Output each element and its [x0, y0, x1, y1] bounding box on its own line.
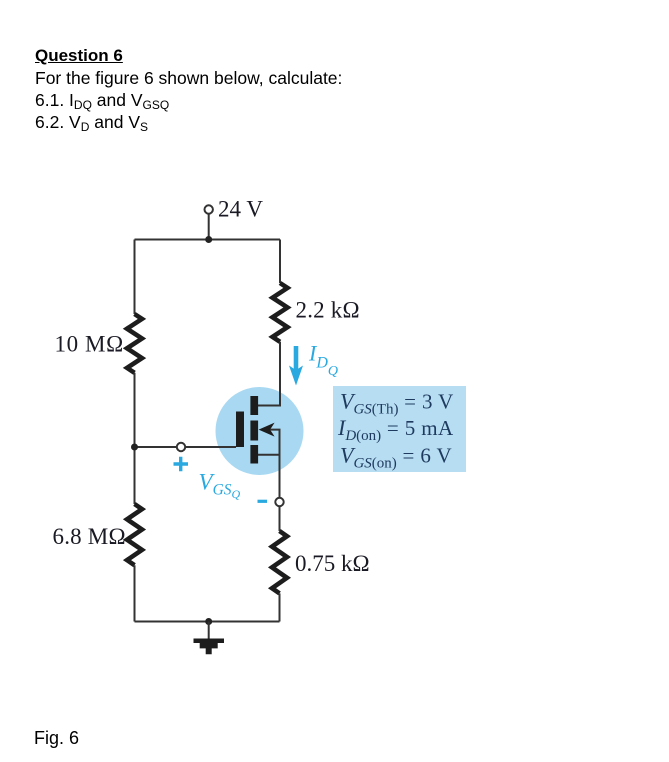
wire: supply stub	[208, 214, 210, 240]
drain contact bar	[250, 396, 258, 415]
svg-text:0.75 kΩ: 0.75 kΩ	[295, 551, 370, 576]
wire: left rail mid	[134, 373, 136, 504]
current arrow IDQ	[294, 346, 299, 370]
wire: right rail to drain	[257, 342, 280, 406]
svg-text:10 MΩ: 10 MΩ	[55, 332, 124, 357]
wire: bottom rail	[135, 621, 280, 623]
node: top junction dot	[205, 236, 212, 243]
wire: to RS	[279, 506, 281, 531]
node: source open terminal	[275, 498, 283, 506]
resistor R 10M	[127, 314, 142, 373]
resistor R 6.8M	[127, 504, 142, 565]
resistor R 0.75k	[272, 531, 287, 593]
body contact bar	[250, 421, 258, 441]
label: minus	[258, 500, 268, 503]
wire: body to source rail	[270, 430, 280, 502]
label: plus	[174, 457, 189, 471]
gate bar	[236, 412, 244, 448]
ground	[208, 622, 210, 639]
svg-text:2.2 kΩ: 2.2 kΩ	[296, 298, 360, 323]
svg-text:24 V: 24 V	[218, 197, 263, 222]
wire: top rail	[135, 239, 281, 241]
svg-text:6.8 MΩ: 6.8 MΩ	[53, 524, 126, 549]
node: ground junction dot	[205, 618, 212, 625]
wire: RS to bottom rail	[279, 593, 281, 621]
info box	[333, 386, 466, 472]
wire: left rail upper	[134, 240, 136, 315]
body arrow	[259, 423, 275, 437]
MOSFET highlight circle	[216, 387, 304, 475]
svg-text:VGSQ: VGSQ	[199, 470, 241, 502]
wire: right rail upper	[279, 240, 281, 284]
node: gate junction dot	[131, 444, 138, 451]
resistor R 2.2k	[273, 283, 288, 342]
wire: source terminal	[258, 454, 280, 456]
source contact bar	[250, 445, 258, 464]
node: gate open terminal	[177, 443, 185, 451]
node: supply terminal	[205, 205, 213, 213]
wire: left rail lower	[134, 565, 136, 621]
wire: gate from divider	[135, 446, 237, 448]
svg-text:IDQ: IDQ	[308, 341, 338, 380]
